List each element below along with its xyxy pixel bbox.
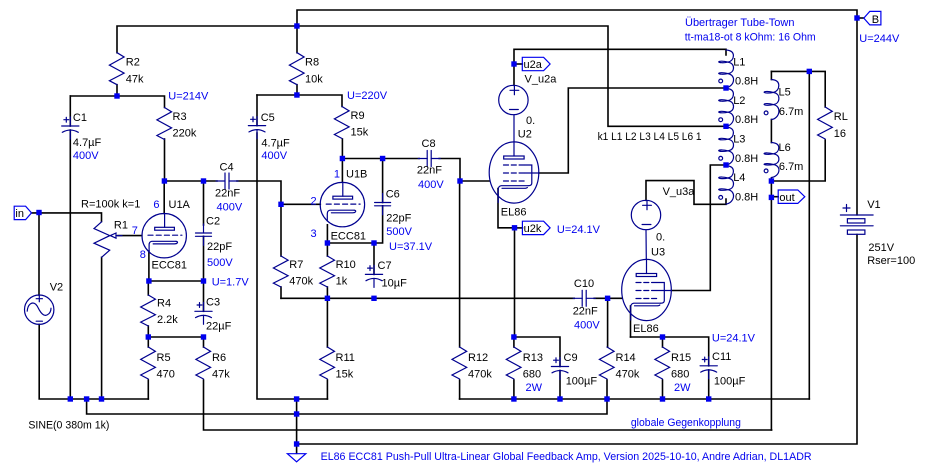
wire C1 bottom lead: [69, 130, 71, 399]
svg-text:4.7µF: 4.7µF: [73, 137, 102, 149]
svg-text:470k: 470k: [616, 369, 640, 381]
svg-text:L4: L4: [733, 172, 745, 184]
svg-text:47k: 47k: [126, 73, 144, 85]
inductor L5: [764, 80, 779, 120]
junction: [380, 156, 385, 161]
svg-text:C11: C11: [712, 351, 731, 363]
resistor R13: [506, 347, 521, 379]
capacitor C4: [216, 173, 238, 189]
svg-text:4.7µF: 4.7µF: [261, 137, 290, 149]
pentode U2: [489, 142, 539, 203]
svg-text:0.8H: 0.8H: [735, 191, 758, 203]
svg-text:6.7m: 6.7m: [779, 106, 803, 118]
svg-text:251V: 251V: [868, 242, 894, 254]
svg-text:3: 3: [311, 228, 317, 240]
wire B to V1: [856, 18, 858, 215]
wire U1A anode lead: [163, 181, 165, 214]
svg-text:500V: 500V: [386, 226, 412, 238]
junction: [457, 178, 462, 183]
junction: [723, 85, 728, 90]
inductor L4: [719, 166, 734, 204]
U2 anode connection: [513, 115, 515, 142]
wire U3 cathode lead: [630, 306, 632, 337]
wire R4 top lead: [147, 281, 149, 295]
wire R3 bottom to U1A anode node: [164, 139, 166, 181]
junction: [294, 411, 299, 416]
wire R11 bottom lead: [326, 380, 328, 399]
wire V2 to ground rail: [39, 324, 148, 399]
wire R5 top lead: [147, 337, 149, 347]
wire out flag stub: [771, 196, 778, 198]
wire L6 bottom / out / feedback: [770, 178, 772, 430]
svg-text:220k: 220k: [173, 127, 197, 139]
svg-text:L3: L3: [733, 134, 745, 146]
capacitor C1: [62, 117, 79, 139]
voltage source V2: [25, 295, 54, 324]
resistor R6: [196, 347, 211, 379]
svg-text:SINE(0 380m 1k): SINE(0 380m 1k): [28, 420, 109, 432]
capacitor C11: [700, 357, 717, 379]
wire R13 top lead: [513, 337, 515, 347]
svg-text:400V: 400V: [261, 150, 287, 162]
svg-text:22pF: 22pF: [207, 241, 232, 253]
wire R8 bottom lead: [296, 85, 298, 95]
junction: [294, 441, 299, 446]
wire U1A cathode lead: [148, 251, 150, 281]
wire C7 top lead: [373, 243, 375, 274]
wire R14 bottom lead: [606, 380, 608, 399]
capacitor C9: [551, 358, 568, 380]
U3 anode connection: [645, 230, 647, 260]
junction: [68, 396, 73, 401]
wire U1A cathode row: [149, 280, 204, 282]
wire R10 top lead: [326, 243, 328, 256]
svg-text:400V: 400V: [574, 319, 600, 331]
node out: [778, 190, 805, 204]
triode U1A: [142, 214, 186, 258]
svg-text:R7: R7: [289, 259, 303, 271]
junction: [723, 124, 728, 129]
svg-text:R12: R12: [468, 352, 488, 364]
svg-text:22pF: 22pF: [386, 212, 411, 224]
wire C4 to U1B grid node: [237, 181, 281, 204]
junction: [371, 240, 376, 245]
wire R4/C3 bottom row: [148, 336, 203, 338]
resistor R12: [452, 347, 467, 379]
svg-text:Rser=100: Rser=100: [867, 255, 915, 267]
svg-text:out: out: [779, 192, 794, 204]
wire U2 grid lead: [460, 180, 489, 182]
wire B+ top rail: [297, 10, 857, 26]
voltage source V_u2a: [499, 85, 528, 114]
svg-text:u2a: u2a: [524, 59, 543, 71]
svg-text:400V: 400V: [418, 179, 444, 191]
svg-text:470k: 470k: [468, 369, 492, 381]
capacitor C10: [573, 290, 595, 306]
wire R11 top lead: [326, 298, 328, 347]
junction: [807, 69, 812, 74]
svg-text:U=244V: U=244V: [859, 33, 900, 45]
svg-text:U3: U3: [651, 247, 665, 259]
svg-text:0.8H: 0.8H: [735, 114, 758, 126]
svg-text:R8: R8: [305, 56, 319, 68]
wire R6 top lead: [203, 337, 205, 347]
svg-text:R3: R3: [173, 111, 187, 123]
pentode U3: [622, 259, 672, 320]
wire R5 bottom lead: [147, 380, 149, 399]
wire R8 top lead: [296, 26, 298, 53]
wire in to V2: [38, 213, 40, 296]
wire input row: [32, 213, 102, 222]
svg-text:B: B: [872, 14, 879, 26]
svg-text:C7: C7: [378, 260, 392, 272]
resistor R15: [655, 347, 670, 379]
svg-text:C8: C8: [422, 138, 436, 150]
svg-text:U=214V: U=214V: [168, 91, 209, 103]
svg-text:R15: R15: [671, 352, 691, 364]
wire U2 cathode to u2k: [498, 189, 515, 228]
svg-text:47k: 47k: [212, 369, 230, 381]
junction: [723, 162, 728, 167]
svg-text:16: 16: [834, 128, 846, 140]
svg-text:22nF: 22nF: [417, 165, 442, 177]
svg-text:680: 680: [523, 369, 541, 381]
svg-text:k1 L1 L2 L3 L4 L5 L6 1: k1 L1 L2 L3 L4 L5 L6 1: [598, 131, 702, 143]
wire secondary ground: [808, 71, 810, 399]
junction: [511, 396, 516, 401]
junction: [294, 92, 299, 97]
wire C9 bottom lead: [559, 371, 561, 400]
svg-text:U1B: U1B: [346, 169, 367, 181]
wire U2 screen to UL tap: [539, 88, 726, 173]
svg-text:C1: C1: [73, 112, 87, 124]
wire C5/R8/R9 node: [257, 95, 342, 107]
capacitor C6: [375, 194, 391, 215]
svg-text:V_u3a: V_u3a: [663, 186, 696, 198]
svg-text:L2: L2: [733, 95, 745, 107]
svg-text:8: 8: [140, 249, 146, 261]
junction: [325, 296, 330, 301]
node B: [857, 11, 881, 26]
inductor L2: [719, 88, 734, 126]
svg-text:R5: R5: [157, 352, 171, 364]
svg-text:in: in: [15, 208, 24, 220]
svg-text:u2k: u2k: [524, 223, 542, 235]
wire R1 bottom lead: [101, 257, 103, 399]
resistor R2: [109, 53, 124, 85]
junction: [854, 15, 859, 20]
svg-text:100µF: 100µF: [566, 376, 598, 388]
wire u2a flag stub: [514, 63, 522, 65]
svg-text:0.8H: 0.8H: [735, 153, 758, 165]
svg-text:7: 7: [132, 225, 138, 237]
wire R15 bottom lead: [662, 380, 664, 399]
wire RL bottom: [771, 140, 825, 181]
wire anode node to C4: [164, 180, 217, 182]
svg-text:0.8H: 0.8H: [735, 76, 758, 88]
junction: [84, 396, 89, 401]
wire C5 bottom to rail: [257, 133, 327, 399]
svg-text:R9: R9: [351, 110, 365, 122]
junction: [201, 278, 206, 283]
resistor R4: [141, 295, 156, 326]
junction: [512, 225, 517, 230]
svg-text:22nF: 22nF: [573, 305, 598, 317]
wire U1B anode lead: [341, 159, 343, 183]
junction: [557, 396, 562, 401]
wire R7 bottom lead: [280, 287, 282, 298]
svg-text:22nF: 22nF: [215, 188, 240, 200]
wire cathode row to C10: [281, 297, 574, 299]
resistor R9: [334, 107, 349, 139]
junction: [371, 296, 376, 301]
svg-text:2W: 2W: [526, 382, 543, 394]
junction: [36, 210, 41, 215]
svg-text:R=100k k=1: R=100k k=1: [81, 198, 140, 210]
svg-text:10µF: 10µF: [382, 277, 408, 289]
ground: [287, 454, 305, 462]
svg-text:U=1.7V: U=1.7V: [212, 276, 250, 288]
wire R13 bottom lead: [513, 380, 515, 399]
svg-text:globale Gegenkopplung: globale Gegenkopplung: [631, 417, 741, 429]
junction: [769, 178, 774, 183]
svg-text:L5: L5: [779, 86, 791, 98]
wire ground rail y444 to V1: [297, 235, 857, 445]
svg-text:400V: 400V: [73, 150, 99, 162]
wire U1B cathode row to C6: [327, 206, 382, 243]
svg-text:15k: 15k: [336, 369, 354, 381]
svg-text:R6: R6: [212, 352, 226, 364]
battery V1: [840, 205, 873, 235]
junction: [278, 202, 283, 207]
svg-text:6: 6: [153, 199, 159, 211]
wire L5-L6 link: [770, 120, 772, 143]
svg-text:U=24.1V: U=24.1V: [557, 224, 601, 236]
wire C5 top lead: [256, 95, 258, 126]
capacitor C3: [195, 302, 212, 324]
voltage source V_u3a: [631, 200, 660, 229]
svg-text:V1: V1: [867, 199, 880, 211]
svg-text:2W: 2W: [674, 382, 691, 394]
junction: [294, 396, 299, 401]
svg-text:470k: 470k: [289, 275, 313, 287]
wire L5 top to RL: [771, 71, 825, 107]
inductor L1: [719, 50, 734, 88]
svg-text:U1A: U1A: [169, 199, 191, 211]
svg-text:15k: 15k: [351, 126, 369, 138]
svg-text:L6: L6: [779, 142, 791, 154]
svg-text:U=24.1V: U=24.1V: [712, 333, 756, 345]
wire U1B grid lead: [281, 203, 320, 205]
inductor L6: [764, 143, 779, 178]
wire C6 top lead: [382, 159, 384, 203]
capacitor C7: [365, 265, 382, 287]
svg-text:6.7m: 6.7m: [779, 161, 803, 173]
wire R7 top lead: [280, 204, 282, 256]
resistor R5: [141, 347, 156, 379]
svg-text:22µF: 22µF: [206, 320, 232, 332]
junction: [660, 334, 665, 339]
junction: [201, 334, 206, 339]
triode U1B: [320, 182, 364, 226]
capacitor C8: [418, 151, 440, 167]
wire u2k flag stub: [515, 227, 523, 229]
svg-text:C3: C3: [206, 296, 220, 308]
svg-text:tt-ma18-ot 8 kOhm: 16 Ohm: tt-ma18-ot 8 kOhm: 16 Ohm: [685, 31, 816, 43]
wire U3 screen to UL tap: [671, 165, 726, 291]
wire C3 top lead: [203, 281, 205, 311]
svg-text:680: 680: [671, 369, 689, 381]
capacitor C5: [248, 117, 265, 139]
wire ground rail y414: [87, 399, 607, 414]
svg-text:EL86: EL86: [633, 323, 659, 335]
svg-text:V2: V2: [50, 282, 63, 294]
svg-text:C4: C4: [220, 161, 234, 173]
wire ground rail right: [460, 398, 810, 400]
wire C11 bottom lead: [708, 370, 710, 399]
svg-text:C2: C2: [206, 216, 220, 228]
wire R1 wiper to U1A grid: [118, 235, 142, 237]
svg-text:C6: C6: [386, 189, 400, 201]
junction: [511, 61, 516, 66]
junction: [604, 396, 609, 401]
wire feedback rail to R6: [204, 380, 772, 430]
svg-text:R4: R4: [157, 298, 171, 310]
wire R4 bottom lead: [147, 326, 149, 337]
wire L5 top lead: [770, 71, 772, 79]
wire R13 to C9 top: [514, 337, 560, 367]
svg-text:1k: 1k: [336, 275, 348, 287]
resistor R1 potentiometer: [94, 222, 122, 257]
wire u2k to R13: [514, 228, 516, 337]
junction: [99, 396, 104, 401]
svg-text:R13: R13: [523, 352, 543, 364]
resistor R8: [289, 53, 304, 85]
svg-text:2.2k: 2.2k: [157, 314, 178, 326]
wire C1/R2/R3 node: [70, 96, 164, 108]
resistor R3: [157, 108, 172, 140]
wire u2a to L1 top: [514, 49, 726, 85]
wire C10 to U3 grid: [594, 297, 622, 299]
inductor L3: [719, 127, 734, 165]
wire B+ to center tap: [117, 26, 726, 126]
capacitor C2: [196, 181, 212, 245]
junction: [660, 396, 665, 401]
svg-text:10k: 10k: [305, 73, 323, 85]
wire C1 top lead: [69, 96, 71, 126]
resistor R14: [599, 347, 614, 379]
wire C2 bottom lead: [203, 236, 205, 281]
svg-text:1: 1: [334, 169, 340, 181]
wire R15 top lead: [662, 337, 664, 347]
svg-text:R2: R2: [126, 56, 140, 68]
resistor R7: [273, 256, 288, 287]
node in: [14, 206, 31, 220]
resistor RL: [818, 107, 833, 139]
svg-text:0.: 0.: [526, 115, 535, 127]
wire U1B cathode lead: [326, 225, 328, 243]
junction: [706, 396, 711, 401]
wire u3a to L4 bottom: [646, 181, 726, 205]
svg-text:R1: R1: [114, 220, 128, 232]
junction: [146, 334, 151, 339]
svg-text:500V: 500V: [207, 257, 233, 269]
wire R14 top lead: [607, 298, 609, 347]
svg-text:EL86: EL86: [501, 207, 527, 219]
junction: [325, 240, 330, 245]
wire R12 top lead: [459, 181, 461, 347]
svg-text:V_u2a: V_u2a: [525, 73, 558, 85]
wire U3 cathode row to C11: [631, 337, 709, 366]
svg-text:Übertrager Tube-Town: Übertrager Tube-Town: [685, 17, 794, 29]
svg-text:R14: R14: [616, 352, 636, 364]
resistor R10: [320, 256, 335, 287]
junction: [511, 334, 516, 339]
wire U1B anode to C8: [342, 158, 419, 160]
svg-text:EL86 ECC81 Push-Pull Ultra-Lin: EL86 ECC81 Push-Pull Ultra-Linear Global…: [321, 451, 812, 463]
junction: [146, 278, 151, 283]
svg-text:C9: C9: [564, 352, 578, 364]
svg-text:U=220V: U=220V: [347, 90, 388, 102]
svg-text:0.: 0.: [656, 232, 665, 244]
svg-text:2: 2: [311, 195, 317, 207]
wire R12 bottom lead: [459, 380, 461, 399]
svg-text:L1: L1: [733, 56, 745, 68]
svg-text:ECC81: ECC81: [152, 260, 187, 272]
svg-text:ECC81: ECC81: [331, 231, 366, 243]
junction: [340, 156, 345, 161]
wire C8 out: [439, 159, 460, 182]
resistor R11: [320, 347, 335, 379]
junction: [162, 178, 167, 183]
node u2a: [522, 57, 550, 71]
svg-text:470: 470: [157, 369, 175, 381]
svg-text:R10: R10: [336, 259, 356, 271]
svg-text:C5: C5: [261, 112, 275, 124]
wire R10 bottom lead: [326, 287, 328, 298]
svg-text:U=37.1V: U=37.1V: [389, 241, 433, 253]
junction: [114, 93, 119, 98]
svg-text:100µF: 100µF: [714, 376, 746, 388]
svg-text:400V: 400V: [217, 202, 243, 214]
node u2k: [522, 221, 550, 235]
wire R9 bottom lead: [341, 139, 343, 159]
wire R2 bottom lead: [116, 85, 118, 96]
svg-text:C10: C10: [574, 278, 594, 290]
junction: [201, 178, 206, 183]
wire ground stem: [296, 399, 298, 453]
junction: [769, 195, 774, 200]
junction: [294, 23, 299, 28]
svg-text:RL: RL: [834, 111, 848, 123]
junction: [605, 296, 610, 301]
svg-text:U2: U2: [518, 129, 532, 141]
svg-text:R11: R11: [336, 352, 355, 364]
